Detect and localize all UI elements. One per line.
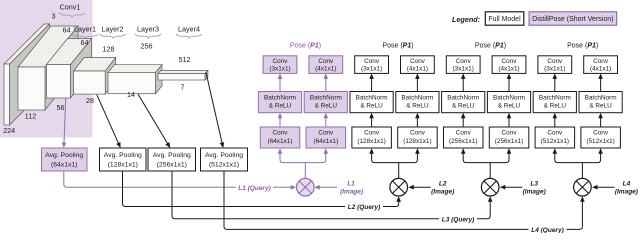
svg-text:28: 28 (86, 96, 94, 105)
label L1 (Query) (236, 183, 273, 192)
svg-text:Pose (P1): Pose (P1) (382, 43, 413, 50)
svg-text:Pose (P1): Pose (P1) (475, 43, 506, 50)
svg-text:Pose (P1): Pose (P1) (567, 43, 598, 50)
avg pooling box (256x1x1) (148, 148, 196, 171)
svg-text:BatchNorm: BatchNorm (310, 94, 342, 101)
svg-text:(64x1x1): (64x1x1) (51, 162, 77, 169)
svg-text:& ReLU: & ReLU (452, 103, 475, 110)
wire L4 (Query) line from avg pooling to multiply node 4 (224, 171, 582, 229)
svg-text:14: 14 (127, 90, 135, 99)
svg-text:Conv: Conv (547, 58, 563, 65)
wire L3 (Query) line from avg pooling to multiply node 3 (172, 171, 490, 219)
svg-text:BatchNorm: BatchNorm (401, 94, 433, 101)
label L2 (Query) (345, 202, 383, 211)
svg-text:Conv: Conv (593, 130, 609, 137)
svg-text:224: 224 (3, 126, 15, 135)
svg-text:Legend:: Legend: (452, 15, 481, 24)
wire L1 image arrow into multiply node 1 (319, 186, 337, 188)
svg-text:(Image): (Image) (615, 189, 638, 196)
svg-text:(256x1x1): (256x1x1) (449, 138, 477, 145)
conv top box (3x1x1) col5 (446, 56, 480, 74)
svg-text:Conv: Conv (364, 130, 380, 137)
svg-text:Conv: Conv (318, 130, 334, 137)
svg-text:64: 64 (63, 26, 71, 35)
svg-text:& ReLU: & ReLU (360, 103, 383, 110)
svg-text:Conv: Conv (547, 130, 563, 137)
svg-text:Conv: Conv (502, 58, 518, 65)
wire L2 image arrow into multiply node (412, 186, 431, 188)
svg-text:& ReLU: & ReLU (406, 103, 429, 110)
svg-text:(64x1x1): (64x1x1) (268, 138, 293, 145)
svg-text:(64x1x1): (64x1x1) (313, 138, 338, 145)
legend box Full Model (485, 12, 524, 25)
svg-text:Conv: Conv (410, 130, 426, 137)
wire arrow batchnorm to conv-top col2 (325, 78, 327, 92)
svg-text:Avg. Pooling: Avg. Pooling (104, 152, 142, 159)
conv bottom box (256x1x1) col5 (444, 127, 484, 148)
avg pooling box (128x1x1) (100, 148, 147, 171)
svg-text:64: 64 (81, 38, 89, 47)
avg pooling box (64x1x1) (42, 148, 88, 171)
brace under Conv1 (59, 13, 85, 18)
batchnorm relu box col7 (533, 92, 576, 113)
batchnorm relu box col4 (396, 92, 439, 113)
label L4 (Query) (529, 225, 567, 234)
svg-text:Conv: Conv (273, 130, 289, 137)
brace under Layer3 (135, 34, 161, 39)
wire branch from multiply node 2 to conv boxes (372, 153, 418, 163)
conv bottom box (512x1x1) col7 (535, 127, 575, 148)
layer1 3D box (64ch, 56x56) (47, 39, 92, 99)
wire arrow batchnorm to conv-top col8 (600, 78, 602, 92)
wire arrow layer3 to avg pooling 256 (138, 94, 168, 144)
svg-text:Conv: Conv (456, 130, 472, 137)
svg-text:Layer1: Layer1 (74, 25, 96, 34)
svg-text:(3x1x1): (3x1x1) (544, 66, 565, 73)
svg-text:(256x1x1): (256x1x1) (495, 138, 523, 145)
svg-text:(4x1x1): (4x1x1) (315, 66, 336, 73)
svg-text:(4x1x1): (4x1x1) (498, 66, 519, 73)
multiply node 2 (circle with X) (390, 178, 408, 196)
svg-text:Full Model: Full Model (488, 16, 521, 23)
wire branch from multiply node 4 to conv boxes (555, 153, 601, 163)
batchnorm relu box col6 (487, 92, 530, 113)
svg-text:Pose (P1): Pose (P1) (290, 43, 321, 50)
svg-text:(3x1x1): (3x1x1) (269, 66, 290, 73)
conv bottom box (128x1x1) col4 (398, 127, 438, 148)
wire arrow batchnorm to conv-top col5 (462, 78, 464, 92)
wire arrow conv-bottom to batchnorm col5 (462, 117, 464, 127)
svg-text:BatchNorm: BatchNorm (356, 94, 388, 101)
brace under Layer1 (72, 34, 98, 39)
avg pooling box (512x1x1) (201, 148, 248, 171)
layer4 3D box (512ch, 7x7) (158, 71, 208, 81)
svg-text:512: 512 (179, 55, 191, 64)
svg-text:L3 (Query): L3 (Query) (442, 216, 475, 223)
svg-text:BatchNorm: BatchNorm (264, 94, 296, 101)
brace under Layer4 (176, 34, 202, 39)
wire arrow conv-bottom to batchnorm col6 (508, 117, 510, 127)
svg-text:(512x1x1): (512x1x1) (586, 138, 614, 145)
svg-text:Layer4: Layer4 (178, 25, 200, 34)
multiply node 3 (circle with X) (481, 178, 499, 196)
wire arrow batchnorm to conv-top col3 (371, 78, 373, 92)
wire arrow conv-bottom to batchnorm col4 (416, 117, 418, 127)
svg-text:(128x1x1): (128x1x1) (108, 162, 138, 169)
svg-text:& ReLU: & ReLU (544, 103, 567, 110)
wire L1 query line from avg pooling 64 to multiply node 1 (64, 171, 291, 187)
svg-text:(Image): (Image) (523, 189, 546, 196)
conv bottom box (64x1x1) col2 (306, 127, 346, 148)
label L3 (Query) (439, 214, 477, 223)
wire L2 (Query) line from avg pooling to multiply node 2 (123, 171, 399, 207)
wire arrow conv-bottom to batchnorm col1 (279, 117, 281, 127)
conv top box (4x1x1) col4 (401, 56, 435, 74)
svg-text:L4: L4 (623, 181, 631, 188)
conv bottom box (128x1x1) col3 (352, 127, 392, 148)
svg-text:Conv: Conv (456, 58, 472, 65)
svg-text:L4 (Query): L4 (Query) (531, 227, 564, 233)
svg-text:56: 56 (57, 103, 65, 112)
conv bottom box (256x1x1) col6 (489, 127, 529, 148)
wire arrow batchnorm to conv-top col4 (416, 78, 418, 92)
svg-text:Avg. Pooling: Avg. Pooling (153, 152, 191, 159)
svg-text:3: 3 (52, 12, 56, 21)
conv top box (4x1x1) col6 (492, 56, 526, 74)
multiply node 4 (circle with X) (574, 178, 592, 196)
batchnorm relu box col8 (579, 92, 622, 113)
legend box DistillPose (Short Version) (529, 12, 617, 25)
wire arrow conv-bottom to batchnorm col3 (371, 117, 373, 127)
conv top box (4x1x1) col2 (309, 56, 343, 74)
batchnorm relu box col3 (350, 92, 393, 113)
svg-text:Layer2: Layer2 (102, 25, 124, 34)
conv top box (3x1x1) col1 (263, 56, 297, 74)
batchnorm relu box col5 (442, 92, 485, 113)
svg-text:& ReLU: & ReLU (589, 103, 612, 110)
conv top box (4x1x1) col8 (584, 56, 618, 74)
batchnorm relu box col1 (258, 92, 301, 113)
svg-text:(512x1x1): (512x1x1) (209, 162, 239, 169)
svg-text:BatchNorm: BatchNorm (493, 94, 525, 101)
layer3 3D box (256ch, 14x14) (108, 65, 162, 94)
svg-text:(4x1x1): (4x1x1) (407, 66, 428, 73)
svg-text:L1: L1 (347, 181, 355, 188)
svg-text:7: 7 (181, 83, 185, 92)
conv bottom box (64x1x1) col1 (260, 127, 300, 148)
svg-text:BatchNorm: BatchNorm (447, 94, 479, 101)
layer2 3D box (128ch, 28x28) (74, 58, 116, 95)
svg-text:112: 112 (25, 112, 36, 121)
wire arrow batchnorm to conv-top col7 (554, 78, 556, 92)
wire L3 image arrow into multiply node (504, 186, 523, 188)
wire arrow batchnorm to conv-top col1 (279, 78, 281, 92)
wire arrow conv-bottom to batchnorm col8 (600, 117, 602, 127)
svg-text:Conv: Conv (273, 58, 289, 65)
svg-text:Conv1: Conv1 (60, 3, 81, 12)
svg-text:& ReLU: & ReLU (315, 103, 338, 110)
svg-text:& ReLU: & ReLU (498, 103, 521, 110)
svg-text:(256x1x1): (256x1x1) (157, 162, 187, 169)
svg-text:Layer3: Layer3 (137, 25, 159, 34)
svg-text:(3x1x1): (3x1x1) (361, 66, 382, 73)
svg-text:L2 (Query): L2 (Query) (348, 204, 381, 211)
wire branch from multiply node 1 to conv boxes (280, 153, 326, 163)
svg-text:BatchNorm: BatchNorm (539, 94, 571, 101)
svg-text:256: 256 (141, 42, 153, 51)
svg-text:(Image): (Image) (431, 189, 454, 196)
svg-text:(128x1x1): (128x1x1) (357, 138, 385, 145)
wire purple arrow layer1 to avg pooling 64 (64, 98, 66, 143)
conv bottom box (512x1x1) col8 (581, 127, 621, 148)
input slab 3D box (3ch, 224x224) (4, 24, 50, 125)
svg-text:(3x1x1): (3x1x1) (453, 66, 474, 73)
svg-text:(128x1x1): (128x1x1) (403, 138, 431, 145)
svg-text:Conv: Conv (318, 58, 334, 65)
svg-text:(4x1x1): (4x1x1) (590, 66, 611, 73)
conv1 3D box (64ch, 112x112) (18, 26, 78, 110)
wire arrow layer4 to avg pooling 512 (206, 73, 222, 144)
svg-text:Conv: Conv (410, 58, 426, 65)
conv top box (3x1x1) col3 (355, 56, 389, 74)
svg-text:Conv: Conv (502, 130, 518, 137)
multiply node 1 (circle with X) (297, 178, 315, 196)
wire arrow layer2 to avg pooling 128 (97, 95, 119, 144)
svg-text:Conv: Conv (364, 58, 380, 65)
svg-text:L3: L3 (530, 181, 538, 188)
svg-text:Avg. Pooling: Avg. Pooling (45, 152, 83, 159)
wire branch from multiply node 3 to conv boxes (463, 153, 509, 163)
svg-text:Avg. Pooling: Avg. Pooling (205, 152, 243, 159)
svg-text:128: 128 (103, 45, 115, 54)
wire arrow conv-bottom to batchnorm col2 (325, 117, 327, 127)
wire arrow conv-bottom to batchnorm col7 (554, 117, 556, 127)
conv top box (3x1x1) col7 (538, 56, 572, 74)
wire L4 image arrow into multiply node (596, 186, 615, 188)
batchnorm relu box col2 (304, 92, 347, 113)
svg-text:BatchNorm: BatchNorm (585, 94, 617, 101)
svg-text:& ReLU: & ReLU (269, 103, 292, 110)
svg-text:(512x1x1): (512x1x1) (541, 138, 569, 145)
purple highlighted region (distilled part) (0, 0, 93, 138)
svg-text:L1 (Query): L1 (Query) (238, 185, 271, 192)
wire arrow batchnorm to conv-top col6 (508, 78, 510, 92)
svg-text:DistillPose (Short Version): DistillPose (Short Version) (532, 16, 613, 23)
svg-text:(Image): (Image) (340, 189, 363, 196)
svg-text:L2: L2 (439, 181, 447, 188)
svg-text:Conv: Conv (593, 58, 609, 65)
brace under Layer2 (100, 34, 126, 39)
